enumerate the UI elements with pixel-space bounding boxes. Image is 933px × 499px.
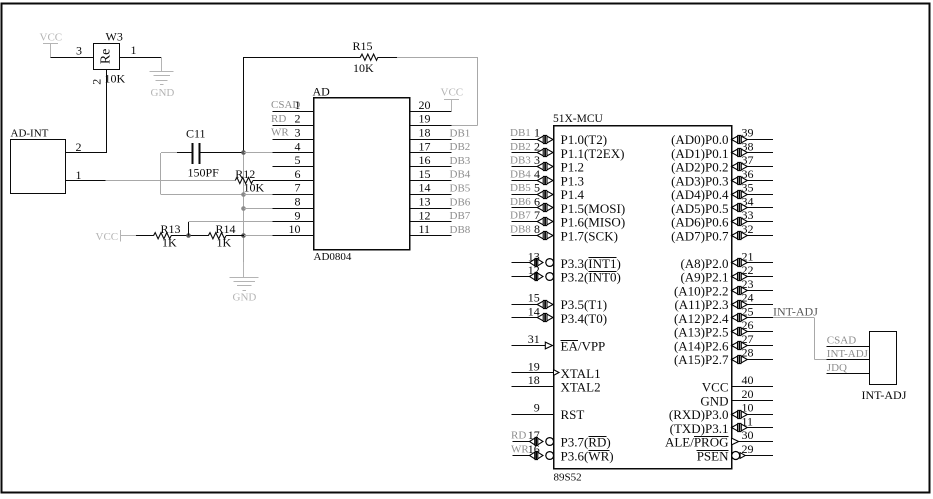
wire W3 pin1 to GND xyxy=(119,57,161,59)
svg-text:DB1: DB1 xyxy=(510,127,531,139)
svg-text:6: 6 xyxy=(295,167,301,181)
svg-text:XTAL1: XTAL1 xyxy=(561,366,601,381)
MCU pin 19 wire xyxy=(512,372,554,374)
svg-text:P3.5(T1): P3.5(T1) xyxy=(561,297,608,312)
svg-text:3: 3 xyxy=(534,153,540,167)
svg-text:34: 34 xyxy=(742,194,754,208)
AD0804 pin 8 wire xyxy=(273,208,314,210)
MCU pin 37 wire xyxy=(732,162,748,170)
svg-text:(AD6)P0.6: (AD6)P0.6 xyxy=(671,215,729,230)
svg-text:INT-ADJ: INT-ADJ xyxy=(773,305,818,319)
svg-text:GND: GND xyxy=(700,393,728,408)
svg-text:38: 38 xyxy=(742,139,754,153)
wire C11 right xyxy=(200,152,244,154)
svg-text:(RXD)P3.0: (RXD)P3.0 xyxy=(669,407,729,422)
svg-text:Re: Re xyxy=(99,49,114,65)
svg-text:DB8: DB8 xyxy=(450,224,471,236)
overline EA xyxy=(561,340,578,342)
svg-text:2: 2 xyxy=(76,140,82,154)
AD0804 pin 15 wire xyxy=(409,180,452,182)
svg-text:7: 7 xyxy=(295,181,301,195)
svg-text:2: 2 xyxy=(90,79,104,85)
wire R13-R14 xyxy=(171,235,208,237)
MCU pin 12 wire xyxy=(512,276,530,278)
MCU pin 30 wire xyxy=(732,438,739,445)
svg-text:10K: 10K xyxy=(353,61,374,75)
svg-text:14: 14 xyxy=(528,304,540,318)
MCU pin 38 wire xyxy=(732,148,748,156)
wire W3 pin2 down xyxy=(106,70,108,153)
svg-text:5: 5 xyxy=(295,153,301,167)
svg-text:DB4: DB4 xyxy=(450,169,471,181)
svg-text:7: 7 xyxy=(534,208,540,222)
overline INT1 xyxy=(588,257,616,259)
svg-text:2: 2 xyxy=(295,112,301,126)
svg-text:RD: RD xyxy=(511,430,526,442)
MCU pin 39 wire xyxy=(732,135,748,143)
svg-text:DB2: DB2 xyxy=(510,141,531,153)
svg-text:10K: 10K xyxy=(244,180,265,194)
ground GND (W3) xyxy=(150,71,174,73)
svg-text:(TXD)P3.1: (TXD)P3.1 xyxy=(670,421,729,436)
svg-text:P1.7(SCK): P1.7(SCK) xyxy=(561,228,618,243)
svg-text:(AD4)P0.4: (AD4)P0.4 xyxy=(671,187,729,202)
svg-text:VCC: VCC xyxy=(702,380,729,395)
svg-text:28: 28 xyxy=(742,346,754,360)
wire VCC to W3 pin 3 xyxy=(51,57,93,59)
connector INT-ADJ box xyxy=(870,332,897,385)
AD0804 pin 20 wire xyxy=(409,111,452,113)
MCU pin 27 wire xyxy=(732,341,748,349)
node pin4 junction xyxy=(241,150,246,155)
svg-text:11: 11 xyxy=(742,414,754,428)
svg-text:16: 16 xyxy=(528,442,540,456)
svg-text:P1.5(MOSI): P1.5(MOSI) xyxy=(561,201,626,216)
svg-text:(A14)P2.6: (A14)P2.6 xyxy=(674,338,729,353)
svg-text:XTAL2: XTAL2 xyxy=(561,380,601,395)
svg-text:8: 8 xyxy=(534,222,540,236)
MCU pin 15 wire xyxy=(512,304,538,306)
wire R14 right xyxy=(226,235,244,237)
MCU pin 31 wire xyxy=(512,345,546,347)
AD0804 pin 7 wire xyxy=(273,194,314,196)
svg-text:8: 8 xyxy=(295,195,301,209)
svg-text:18: 18 xyxy=(419,126,431,140)
AD0804 pin 3 wire xyxy=(273,139,314,141)
MCU pin 10 wire xyxy=(732,410,748,418)
svg-text:JDQ: JDQ xyxy=(827,362,847,374)
AD0804 pin 16 wire xyxy=(409,166,452,168)
svg-text:31: 31 xyxy=(528,332,540,346)
AD0804 pin 6 wire xyxy=(273,180,314,182)
wire DB3 pin 3 xyxy=(511,166,537,168)
svg-text:3: 3 xyxy=(76,44,82,58)
MCU pin 13 wire xyxy=(512,262,530,264)
overline RD (P3.7) xyxy=(588,436,606,438)
svg-text:DB3: DB3 xyxy=(510,155,531,167)
svg-text:DB8: DB8 xyxy=(510,223,531,235)
svg-text:36: 36 xyxy=(742,167,754,181)
AD0804 pin 2 wire xyxy=(273,125,314,127)
svg-text:26: 26 xyxy=(742,318,754,332)
wire DB2 pin 2 xyxy=(511,152,537,154)
svg-text:(AD0)P0.0: (AD0)P0.0 xyxy=(671,132,728,147)
svg-text:20: 20 xyxy=(742,387,754,401)
MCU pin 28 wire xyxy=(732,355,748,363)
svg-text:(AD3)P0.3: (AD3)P0.3 xyxy=(671,173,728,188)
wire DB6 pin 6 xyxy=(511,207,537,209)
svg-text:12: 12 xyxy=(528,263,540,277)
wire C11 loop left vertical xyxy=(160,153,162,194)
svg-text:35: 35 xyxy=(742,181,754,195)
svg-text:R15: R15 xyxy=(353,39,373,53)
svg-text:37: 37 xyxy=(742,153,754,167)
svg-text:AD: AD xyxy=(313,84,331,98)
svg-text:16: 16 xyxy=(419,153,431,167)
svg-text:VCC: VCC xyxy=(441,86,464,98)
svg-text:RD: RD xyxy=(271,113,286,125)
svg-text:23: 23 xyxy=(742,277,754,291)
svg-text:17: 17 xyxy=(419,139,431,153)
svg-text:15: 15 xyxy=(419,167,431,181)
svg-text:19: 19 xyxy=(528,359,540,373)
svg-text:150PF: 150PF xyxy=(188,166,220,180)
svg-text:3: 3 xyxy=(295,126,301,140)
wire junction up to pin9 xyxy=(188,222,190,236)
MCU pin 18 wire xyxy=(512,386,554,388)
MCU pin 20 wire xyxy=(732,400,774,402)
wire vertical x244 xyxy=(243,57,245,153)
wire DB5 pin 5 xyxy=(511,194,537,196)
svg-text:1: 1 xyxy=(534,126,540,140)
svg-text:CSAD: CSAD xyxy=(827,334,856,346)
svg-text:P3.3(INT1): P3.3(INT1) xyxy=(561,256,621,271)
svg-text:RST: RST xyxy=(561,407,585,422)
svg-text:DB1: DB1 xyxy=(450,127,471,139)
svg-text:24: 24 xyxy=(742,291,754,305)
svg-text:(A11)P2.3: (A11)P2.3 xyxy=(674,297,728,312)
svg-text:P1.2: P1.2 xyxy=(561,160,584,175)
AD0804 pin 9 wire xyxy=(273,221,314,223)
AD-INT pin 2 wire xyxy=(65,152,107,154)
svg-text:1K: 1K xyxy=(162,235,177,249)
svg-text:P1.4: P1.4 xyxy=(561,187,585,202)
wire gray stub pin10 xyxy=(244,235,273,237)
svg-text:19: 19 xyxy=(419,112,431,126)
wire DB8 pin 8 xyxy=(511,235,537,237)
svg-text:25: 25 xyxy=(742,304,754,318)
svg-text:P1.3: P1.3 xyxy=(561,173,584,188)
svg-text:27: 27 xyxy=(742,332,754,346)
wire DB7 pin 7 xyxy=(511,221,537,223)
wire R15 right gray xyxy=(397,57,478,59)
svg-text:9: 9 xyxy=(295,208,301,222)
AD0804 pin 1 wire xyxy=(273,111,314,113)
MCU pin 23 wire xyxy=(732,286,748,294)
MCU pin 21 wire xyxy=(732,258,748,266)
AD0804 pin 12 wire xyxy=(409,221,452,223)
svg-text:30: 30 xyxy=(742,428,754,442)
svg-text:33: 33 xyxy=(742,208,754,222)
svg-text:P1.1(T2EX): P1.1(T2EX) xyxy=(561,146,625,161)
svg-text:89S52: 89S52 xyxy=(554,472,582,484)
overline WR (P3.6) xyxy=(588,450,609,452)
MCU pin 36 wire xyxy=(732,176,748,184)
svg-text:WR: WR xyxy=(511,443,529,455)
MCU pin 35 wire xyxy=(732,190,748,198)
wire C11 loop bottom xyxy=(161,194,244,196)
svg-text:DB5: DB5 xyxy=(510,182,531,194)
svg-text:DB6: DB6 xyxy=(510,196,531,208)
svg-text:9: 9 xyxy=(534,401,540,415)
svg-text:P1.0(T2): P1.0(T2) xyxy=(561,132,608,147)
MCU pin 25 wire xyxy=(732,313,748,321)
wire C11 left xyxy=(161,152,178,154)
node pin8 junction xyxy=(241,206,246,211)
node R13/R14 junction xyxy=(186,233,191,238)
wire DB4 pin 4 xyxy=(511,180,537,182)
svg-text:20: 20 xyxy=(419,98,431,112)
svg-text:VCC: VCC xyxy=(40,32,63,44)
svg-text:29: 29 xyxy=(742,442,754,456)
wire DB1 pin 1 xyxy=(511,139,537,141)
ground center xyxy=(243,262,245,277)
wire gray stub pin7 xyxy=(244,194,273,196)
svg-text:15: 15 xyxy=(528,291,540,305)
svg-text:13: 13 xyxy=(528,249,540,263)
svg-text:AD0804: AD0804 xyxy=(314,251,352,263)
svg-text:40: 40 xyxy=(742,373,754,387)
svg-text:1: 1 xyxy=(76,168,82,182)
AD-INT pin 1 wire xyxy=(65,180,106,182)
svg-text:P3.4(T0): P3.4(T0) xyxy=(561,311,608,326)
svg-text:22: 22 xyxy=(742,263,754,277)
svg-text:6: 6 xyxy=(534,194,540,208)
wire gray stub pin8 xyxy=(244,208,273,210)
AD0804 pin 13 wire xyxy=(409,208,452,210)
svg-text:VCC: VCC xyxy=(96,231,119,243)
svg-text:P1.6(MISO): P1.6(MISO) xyxy=(561,215,626,230)
svg-text:GND: GND xyxy=(151,87,175,99)
MCU pin 26 wire xyxy=(732,327,748,335)
svg-text:(A8)P2.0: (A8)P2.0 xyxy=(680,256,728,271)
svg-text:4: 4 xyxy=(295,139,301,153)
svg-text:5: 5 xyxy=(534,181,540,195)
svg-text:10K: 10K xyxy=(105,72,126,86)
wire gray stub pin4 xyxy=(244,152,273,154)
svg-text:12: 12 xyxy=(419,208,431,222)
svg-text:10: 10 xyxy=(742,401,754,415)
svg-text:39: 39 xyxy=(742,126,754,140)
AD0804 pin 5 wire xyxy=(273,166,314,168)
MCU pin 32 wire xyxy=(732,231,748,239)
svg-text:32: 32 xyxy=(742,222,754,236)
MCU pin 9 wire xyxy=(512,414,554,416)
svg-text:INT-ADJ: INT-ADJ xyxy=(862,388,907,402)
overline PSEN xyxy=(697,450,729,452)
svg-text:11: 11 xyxy=(419,222,431,236)
svg-text:CSAD: CSAD xyxy=(271,99,300,111)
pin JDQ wire xyxy=(826,373,869,375)
svg-text:DB7: DB7 xyxy=(510,210,531,222)
MCU pin 14 wire xyxy=(512,317,538,319)
svg-text:18: 18 xyxy=(528,373,540,387)
svg-text:DB5: DB5 xyxy=(450,183,471,195)
svg-text:14: 14 xyxy=(419,181,431,195)
svg-text:(A9)P2.1: (A9)P2.1 xyxy=(680,270,728,285)
svg-text:R14: R14 xyxy=(216,222,236,236)
svg-text:(A12)P2.4: (A12)P2.4 xyxy=(674,311,729,326)
pin CSAD wire xyxy=(826,346,869,348)
AD0804 pin 14 wire xyxy=(409,194,452,196)
svg-text:(A13)P2.5: (A13)P2.5 xyxy=(674,325,729,340)
node pin7 junction xyxy=(241,192,246,197)
overline PROG xyxy=(694,436,729,438)
svg-text:INT-ADJ: INT-ADJ xyxy=(827,348,869,360)
svg-text:51X-MCU: 51X-MCU xyxy=(553,113,604,125)
svg-text:1: 1 xyxy=(131,43,137,57)
MCU pin 11 wire xyxy=(732,423,748,431)
svg-text:(AD2)P0.2: (AD2)P0.2 xyxy=(671,160,728,175)
wire VCC to R13 xyxy=(136,235,154,237)
AD0804 pin 10 wire xyxy=(273,235,314,237)
svg-text:(A10)P2.2: (A10)P2.2 xyxy=(674,283,729,298)
svg-text:DB2: DB2 xyxy=(450,141,471,153)
svg-text:WR: WR xyxy=(271,127,289,139)
AD0804 pin 19 wire xyxy=(409,125,452,127)
svg-text:(A15)P2.7: (A15)P2.7 xyxy=(674,352,729,367)
svg-text:(AD7)P0.7: (AD7)P0.7 xyxy=(671,228,729,243)
svg-text:21: 21 xyxy=(742,249,754,263)
svg-text:4: 4 xyxy=(534,167,540,181)
svg-text:1K: 1K xyxy=(217,235,232,249)
AD0804 pin 18 wire xyxy=(409,139,452,141)
XTAL1 edge arrow xyxy=(554,370,560,376)
AD0804 pin 17 wire xyxy=(409,152,452,154)
svg-text:DB7: DB7 xyxy=(450,210,471,222)
svg-text:10: 10 xyxy=(289,222,301,236)
AD0804 pin 11 wire xyxy=(409,235,452,237)
node pin10 junction xyxy=(241,233,246,238)
svg-text:R13: R13 xyxy=(161,222,181,236)
svg-text:W3: W3 xyxy=(106,29,123,43)
svg-text:17: 17 xyxy=(528,428,540,442)
svg-text:C11: C11 xyxy=(186,127,206,141)
AD0804 pin 4 wire xyxy=(273,152,314,154)
svg-text:GND: GND xyxy=(233,292,257,304)
svg-text:(AD1)P0.1: (AD1)P0.1 xyxy=(671,146,728,161)
svg-text:AD-INT: AD-INT xyxy=(11,127,49,139)
svg-text:DB3: DB3 xyxy=(450,155,471,167)
wire gray to R12 xyxy=(106,180,236,182)
svg-text:2: 2 xyxy=(534,139,540,153)
svg-text:DB6: DB6 xyxy=(450,196,471,208)
overline INT0 xyxy=(588,271,616,273)
MCU pin 22 wire xyxy=(732,272,748,280)
svg-text:DB4: DB4 xyxy=(510,168,531,180)
svg-text:(AD5)P0.5: (AD5)P0.5 xyxy=(671,201,728,216)
MCU pin 34 wire xyxy=(732,203,748,211)
MCU pin 29 wire xyxy=(732,452,740,460)
MCU pin 40 wire xyxy=(732,386,774,388)
wire gray INT-ADJ L xyxy=(773,317,815,319)
MCU pin 24 wire xyxy=(732,300,748,308)
MCU pin 33 wire xyxy=(732,217,748,225)
pin INT-ADJ wire xyxy=(826,359,869,361)
svg-text:13: 13 xyxy=(419,195,431,209)
